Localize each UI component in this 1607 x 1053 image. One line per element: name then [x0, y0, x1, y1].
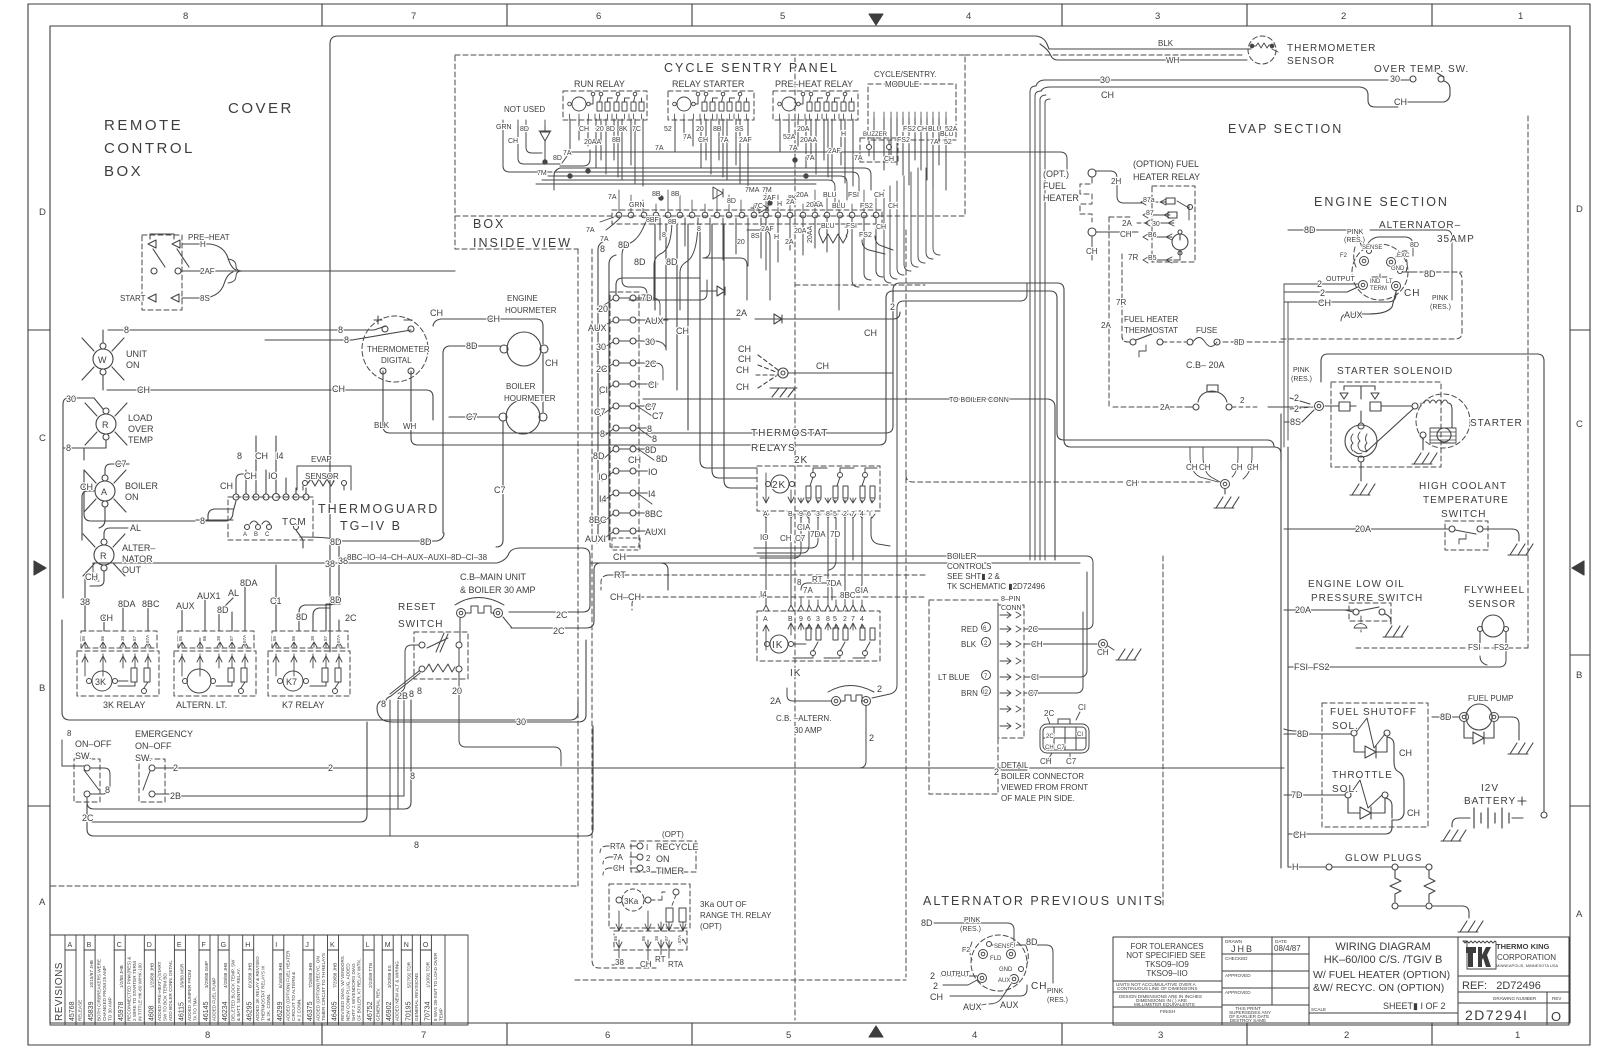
container lamps relays bottom	[62, 620, 578, 720]
wires K7 pins up	[275, 565, 277, 631]
wire BLK from digital via harness	[383, 283, 1281, 460]
3K relay body dashed box	[77, 651, 159, 696]
svg-text:86: 86	[641, 935, 646, 941]
strip left leaders	[594, 299, 613, 543]
wire CH below R2	[90, 571, 104, 586]
svg-text:4608: 4608	[148, 1005, 155, 1021]
svg-text:CH: CH	[1040, 757, 1052, 766]
svg-text:OUTPUT: OUTPUT	[1326, 276, 1356, 283]
alternator 35 terminals	[1367, 249, 1372, 254]
reset switch resistor row	[419, 666, 425, 672]
svg-text:MILLIMETER EQUIVALENTS: MILLIMETER EQUIVALENTS	[1134, 1002, 1195, 1007]
wire H stub	[182, 243, 203, 245]
revision entry J	[313, 935, 315, 1025]
svg-text:IO: IO	[598, 472, 608, 482]
svg-text:ADDED FUEL PUMP: ADDED FUEL PUMP	[212, 978, 217, 1021]
svg-text:2: 2	[328, 763, 333, 773]
svg-text:2: 2	[1240, 396, 1245, 405]
svg-text:CH: CH	[917, 126, 927, 133]
svg-text:8D: 8D	[1304, 225, 1316, 235]
svg-text:20A: 20A	[797, 126, 810, 133]
wire 8D top center drop	[598, 241, 605, 535]
svg-text:30: 30	[596, 342, 606, 352]
svg-text:LT BLUE: LT BLUE	[938, 673, 970, 682]
terminal strip rows	[613, 295, 636, 534]
svg-text:2: 2	[877, 684, 882, 694]
wire 8 on-off run	[87, 700, 411, 809]
svg-text:SCALE: SCALE	[1311, 1007, 1326, 1012]
preheat switch link top	[150, 234, 174, 239]
wire 8D drop2	[609, 255, 616, 540]
wire GRN drop	[503, 126, 552, 172]
boiler connector detail body	[1040, 724, 1089, 753]
title block divider center/logo	[1457, 937, 1459, 1025]
wire 7A run long	[562, 152, 600, 163]
wire 8D exc corner	[1366, 237, 1413, 257]
svg-text:ON: ON	[126, 360, 140, 370]
svg-text:20AA: 20AA	[584, 139, 601, 146]
K7 relay coil	[283, 671, 303, 691]
svg-text:8D: 8D	[296, 612, 308, 622]
svg-text:CH: CH	[640, 960, 652, 969]
dashed CH wire to engine ground	[906, 475, 1210, 482]
svg-text:8D: 8D	[1410, 242, 1419, 249]
svg-text:8D: 8D	[1424, 269, 1436, 279]
svg-text:35AMP: 35AMP	[1437, 234, 1475, 245]
revision entry M	[392, 935, 394, 1025]
svg-text:46405: 46405	[332, 1001, 339, 1021]
wires mid harness joins	[754, 540, 818, 558]
revision entry G	[228, 935, 230, 1025]
svg-text:38: 38	[216, 635, 221, 641]
thermometer digital dashed circle	[362, 316, 428, 382]
svg-text:8BC: 8BC	[645, 509, 663, 519]
ground bolt engine	[1221, 480, 1230, 489]
dashed boundary vertical left	[577, 249, 579, 886]
svg-text:8D: 8D	[727, 198, 736, 205]
wire starter drops	[675, 119, 748, 186]
svg-text:W: W	[98, 355, 107, 365]
svg-text:DELETED BLOCK TEMP. SW: DELETED BLOCK TEMP. SW	[231, 959, 236, 1021]
wire 20A high coolant	[1284, 528, 1448, 530]
svg-text:JHB: JHB	[1231, 944, 1254, 954]
svg-text:DESTROY SAME: DESTROY SAME	[1230, 1018, 1266, 1023]
wire 8D hourmeter	[443, 346, 500, 533]
wire 8 long bottom run	[87, 726, 593, 836]
thermostat relay 2K dashed box	[757, 466, 880, 511]
svg-text:7: 7	[851, 511, 855, 518]
engine hourmeter	[507, 332, 541, 366]
2K below arrows	[763, 514, 875, 518]
svg-text:46752: 46752	[367, 1001, 374, 1021]
svg-text:ENGINE: ENGINE	[507, 294, 538, 303]
svg-text:OF BOILER. K7 RELAY W/TK.: OF BOILER. K7 RELAY W/TK.	[357, 958, 362, 1021]
cb main element	[466, 606, 494, 613]
svg-text:C7: C7	[1028, 689, 1039, 698]
svg-text:TKSO9–IO9: TKSO9–IO9	[1145, 960, 1189, 969]
svg-text:85: 85	[178, 635, 183, 641]
fuel pump ground	[1499, 717, 1519, 740]
svg-text:C: C	[265, 532, 270, 538]
svg-text:7A: 7A	[854, 155, 863, 162]
wire harness 8BC-IO-I4 run	[93, 548, 582, 563]
svg-text:TIMER CIRCUIT TO TH RELAYS: TIMER CIRCUIT TO TH RELAYS	[321, 953, 326, 1021]
low oil contacts	[1353, 609, 1359, 615]
svg-text:HEATER RELAY: HEATER RELAY	[1133, 172, 1200, 182]
svg-text:ADDED JUMPER FROM: ADDED JUMPER FROM	[187, 970, 192, 1021]
svg-text:I2: I2	[983, 690, 989, 696]
svg-text:TO BOILER CONN: TO BOILER CONN	[949, 397, 1009, 404]
dashed boundary right of boiler controls	[1162, 556, 1164, 908]
svg-text:IK: IK	[790, 668, 801, 679]
evap sensor element	[303, 481, 308, 486]
revision entry N	[411, 935, 413, 1025]
svg-text:H: H	[200, 240, 206, 249]
wires module corner east	[884, 248, 940, 283]
drawn column rows	[1222, 953, 1309, 955]
svg-text:TKSO9–IIO: TKSO9–IIO	[1146, 969, 1187, 978]
svg-text:CH: CH	[736, 365, 749, 375]
low oil ground	[1385, 614, 1391, 624]
svg-text:I4: I4	[599, 494, 607, 504]
svg-text:FS2: FS2	[860, 203, 873, 210]
svg-text:(OPT.): (OPT.)	[1043, 169, 1069, 179]
svg-text:87: 87	[132, 635, 137, 641]
wire 8BC harness left	[93, 563, 99, 581]
wire CH tcm	[208, 470, 246, 520]
date column divider	[1271, 937, 1273, 1005]
svg-text:5: 5	[786, 1030, 791, 1041]
svg-text:CH: CH	[579, 126, 589, 133]
svg-text:CH: CH	[1231, 463, 1243, 472]
svg-text:D: D	[147, 942, 152, 949]
wire CH bottom	[1288, 820, 1392, 834]
svg-text:A: A	[68, 942, 73, 949]
svg-text:87A: 87A	[242, 634, 247, 643]
svg-text:FS2: FS2	[859, 232, 872, 239]
wire 8 second to thermometer minus	[265, 330, 411, 340]
zone ticks left	[28, 329, 50, 331]
emergency on-off dashed box	[139, 759, 165, 802]
svg-text:BRN: BRN	[961, 689, 978, 698]
svg-text:I: I	[275, 942, 277, 949]
svg-text:6: 6	[605, 1030, 610, 1041]
svg-text:7A: 7A	[600, 236, 609, 243]
svg-text:CORPORATION: CORPORATION	[1497, 953, 1556, 962]
svg-text:7D: 7D	[1291, 790, 1303, 800]
svg-text:38: 38	[325, 559, 335, 569]
svg-text:B: B	[254, 532, 258, 538]
svg-text:2 WIRE TO STARTER TERM: 2 WIRE TO STARTER TERM	[132, 961, 137, 1021]
svg-text:8: 8	[205, 1030, 210, 1041]
fuel shutoff throttle dashed box	[1322, 703, 1428, 827]
svg-text:8D: 8D	[466, 341, 478, 351]
svg-text:SENSOR: SENSOR	[1468, 599, 1516, 610]
revision entry D	[154, 935, 156, 1025]
wire engine feed vertical 2	[1287, 302, 1289, 440]
svg-text:BLU: BLU	[823, 192, 837, 199]
svg-text:A: A	[243, 532, 247, 538]
svg-text:2AF: 2AF	[828, 148, 841, 155]
svg-text:1/2/88 JHB: 1/2/88 JHB	[119, 965, 124, 988]
engine container rounded	[1321, 354, 1544, 812]
svg-text:AUX: AUX	[1344, 310, 1363, 320]
svg-text:THERMO KING: THERMO KING	[1496, 942, 1549, 951]
wires below terminal row fan	[600, 217, 620, 230]
svg-text:45978: 45978	[118, 1001, 125, 1021]
svg-text:7A: 7A	[720, 137, 729, 144]
svg-text:GRN: GRN	[496, 124, 512, 131]
wire 8 tcm	[196, 474, 246, 520]
svg-text:AUX: AUX	[588, 323, 607, 333]
box inside view dashed corner	[455, 216, 578, 249]
svg-text:& BATT. SENTRY RELAY.: & BATT. SENTRY RELAY.	[236, 968, 241, 1021]
wire harness top container	[330, 36, 1049, 652]
wire preheat drops	[780, 119, 853, 186]
thermometer digital plus minus	[374, 316, 412, 324]
svg-text:8D: 8D	[217, 605, 229, 615]
svg-text:46234: 46234	[222, 1001, 229, 1021]
svg-text:46299: 46299	[277, 1001, 284, 1021]
wires CH fan to ground node	[756, 355, 778, 388]
wire 2A center	[660, 312, 900, 319]
svg-text:WH: WH	[403, 422, 417, 431]
svg-text:38: 38	[120, 635, 125, 641]
svg-text:8: 8	[647, 424, 652, 434]
svg-text:GLOW PLUGS: GLOW PLUGS	[1345, 853, 1422, 864]
svg-text:8: 8	[652, 434, 657, 444]
run relay dashed box	[563, 91, 647, 120]
svg-text:CH: CH	[332, 384, 345, 394]
svg-text:CH: CH	[613, 864, 625, 873]
svg-text:8DA: 8DA	[240, 578, 258, 588]
svg-text:REVISED DIAG. W/ VENDORS: REVISED DIAG. W/ VENDORS	[340, 956, 345, 1021]
svg-text:38: 38	[80, 597, 90, 607]
wire 30 into relay	[1137, 222, 1148, 224]
svg-text:30: 30	[516, 717, 526, 727]
7R dashed vertical	[1122, 254, 1128, 342]
wire 8S stub	[182, 272, 233, 298]
wire 2C on-off run	[87, 722, 367, 822]
svg-text:C.B–MAIN UNIT: C.B–MAIN UNIT	[460, 572, 527, 582]
svg-text:TCM: TCM	[282, 517, 307, 528]
svg-text:B: B	[788, 616, 793, 623]
svg-text:8: 8	[826, 616, 830, 623]
over temp wires	[1395, 80, 1450, 102]
svg-text:I4: I4	[648, 489, 656, 499]
svg-text:CH: CH	[1199, 463, 1211, 472]
2A dashed to breaker	[1113, 406, 1191, 408]
thermometer digital terminals	[382, 326, 388, 332]
solenoid coil	[1345, 425, 1377, 457]
wires tcm top pins up	[256, 452, 286, 494]
wire AUX hook	[1341, 314, 1368, 321]
svg-text:87: 87	[1146, 210, 1154, 217]
svg-text:SOL.: SOL.	[1332, 721, 1359, 732]
wires CH CH engine left	[1190, 447, 1252, 456]
2K pin arrows down	[763, 473, 875, 503]
wire 7A long	[600, 152, 1067, 170]
svg-text:8BF: 8BF	[646, 217, 659, 224]
emergency wires	[155, 768, 186, 794]
svg-text:8: 8	[200, 516, 205, 526]
boiler hourmeter	[506, 400, 540, 434]
wire 2C diagonal from breaker	[503, 617, 512, 628]
svg-text:CH: CH	[628, 455, 641, 465]
wire engine feed vertical	[1283, 284, 1285, 447]
svg-text:1: 1	[1515, 1030, 1520, 1041]
wire 2B long	[178, 795, 404, 797]
svg-text:GRN: GRN	[629, 202, 645, 209]
svg-text:ALTER–: ALTER–	[122, 543, 155, 553]
svg-text:ENGINE LOW OIL: ENGINE LOW OIL	[1308, 579, 1405, 590]
wire AUX diagonal	[989, 984, 1011, 1004]
svg-text:ADDED NEW ALT & WIRING: ADDED NEW ALT & WIRING	[395, 961, 400, 1021]
K7 relay body dashed box	[268, 651, 350, 696]
wire reset to 20	[459, 648, 561, 766]
wire WH from digital via harness	[411, 291, 1274, 447]
svg-text:SW.: SW.	[75, 751, 92, 761]
wire 8D thermoguard to relays	[300, 533, 444, 541]
wire 8 run to thermoguard	[84, 470, 236, 521]
svg-text:CHANGED FROM 25 AMP: CHANGED FROM 25 AMP	[102, 966, 107, 1021]
svg-text:2K: 2K	[772, 480, 786, 491]
svg-text:C7: C7	[594, 407, 606, 417]
svg-text:3K: 3K	[95, 677, 106, 687]
svg-text:RELEASE: RELEASE	[78, 1000, 83, 1021]
wire CH-CH dashed	[632, 597, 927, 610]
svg-text:CH: CH	[1045, 745, 1054, 751]
svg-text:TEMP: TEMP	[128, 435, 153, 445]
svg-text:SENSOR: SENSOR	[305, 472, 339, 481]
svg-text:L: L	[366, 942, 370, 949]
svg-text:2: 2	[930, 971, 935, 981]
svg-text:CIA: CIA	[797, 523, 811, 532]
svg-text:A: A	[1576, 909, 1583, 920]
fuse	[1187, 339, 1193, 345]
wire 2 long run	[186, 767, 1284, 769]
svg-text:FLD: FLD	[990, 956, 1002, 962]
svg-text:2A: 2A	[785, 239, 794, 246]
starter ground	[1422, 438, 1424, 450]
3Ka relay circle	[622, 889, 644, 911]
svg-text:30: 30	[66, 394, 76, 404]
wire 8 down right	[703, 230, 770, 300]
relay contact blade	[1177, 201, 1189, 220]
svg-text:8: 8	[826, 511, 830, 518]
wire drops bundle to terminal row	[619, 190, 876, 212]
svg-text:D: D	[39, 207, 46, 218]
svg-text:# 2 CONN.: # 2 CONN.	[296, 999, 301, 1021]
svg-text:SHT# 2 W/VENDORS DIAG: SHT# 2 W/VENDORS DIAG	[351, 963, 356, 1021]
svg-text:CH: CH	[864, 328, 877, 338]
logo row line	[1458, 975, 1569, 977]
svg-text:MINNEAPOLIS, MINNESOTA USA: MINNEAPOLIS, MINNESOTA USA	[1496, 963, 1558, 968]
wire C7 drop	[496, 421, 503, 547]
wire CH left of A	[82, 491, 95, 540]
svg-text:2A: 2A	[1160, 403, 1170, 412]
svg-text:EVAP: EVAP	[311, 455, 332, 464]
drawing number header line	[1458, 1002, 1569, 1004]
svg-text:8: 8	[344, 335, 349, 345]
wire 2C row	[618, 556, 1093, 629]
wire 8 to reset	[385, 673, 420, 704]
center arrow bottom	[869, 1026, 883, 1037]
svg-text:20: 20	[452, 686, 462, 696]
solenoid internals	[1340, 393, 1379, 399]
svg-text:6: 6	[807, 511, 811, 518]
svg-text:46375: 46375	[307, 1001, 314, 1021]
high coolant contacts	[1449, 526, 1455, 532]
svg-text:CH: CH	[736, 382, 749, 392]
svg-text:O: O	[423, 942, 429, 949]
wire 7D terminal top	[616, 278, 700, 298]
svg-text:BOILER: BOILER	[506, 382, 536, 391]
svg-text:2: 2	[933, 981, 938, 991]
svg-text:EMERGENCY: EMERGENCY	[135, 729, 193, 739]
svg-text:CH: CH	[137, 385, 150, 395]
svg-text:K: K	[330, 942, 335, 949]
svg-text:B: B	[1576, 670, 1582, 681]
svg-text:8B: 8B	[671, 191, 680, 198]
svg-text:THERMOSTAT: THERMOSTAT	[751, 428, 828, 439]
svg-text:7/26/88 JHB: 7/26/88 JHB	[308, 963, 313, 988]
svg-text:3/20/89 ES: 3/20/89 ES	[387, 965, 392, 988]
svg-text:IO: IO	[648, 467, 658, 477]
svg-text:CH: CH	[1247, 463, 1259, 472]
svg-text:C7: C7	[1057, 745, 1065, 751]
svg-text:8D: 8D	[1440, 712, 1452, 722]
svg-text:8: 8	[338, 325, 343, 335]
svg-text:C7: C7	[652, 411, 664, 421]
svg-text:7DA: 7DA	[826, 579, 842, 588]
svg-text:BLU: BLU	[832, 203, 846, 210]
revision entry F	[209, 935, 211, 1025]
svg-text:CI: CI	[1077, 732, 1083, 738]
svg-text:TIMER: TIMER	[656, 866, 684, 876]
svg-text:I4: I4	[276, 451, 284, 461]
svg-text:20A: 20A	[794, 228, 807, 235]
svg-text:2A: 2A	[770, 696, 781, 706]
svg-text:8 WAS 2B-SWT TO LOAD OVER: 8 WAS 2B-SWT TO LOAD OVER	[433, 952, 438, 1021]
svg-text:CH: CH	[876, 224, 886, 231]
center arrow right	[1572, 561, 1584, 575]
altern internals	[179, 654, 248, 676]
svg-text:VIEWED FROM FRONT: VIEWED FROM FRONT	[1001, 783, 1088, 792]
svg-text:AUXI: AUXI	[585, 534, 606, 544]
low oil wire 20A	[1284, 609, 1353, 611]
svg-text:2: 2	[1344, 1030, 1349, 1041]
svg-text:W/ FUEL HEATER (OPTION): W/ FUEL HEATER (OPTION)	[1313, 969, 1450, 981]
svg-text:7C: 7C	[754, 203, 763, 210]
battery plus minus	[1464, 797, 1526, 805]
3K relay coil	[92, 671, 112, 691]
svg-text:NATOR: NATOR	[122, 554, 153, 564]
svg-text:R: R	[102, 420, 109, 430]
detail underline	[1001, 769, 1027, 771]
wires to IK pins	[763, 598, 865, 611]
reset blade to 8	[390, 671, 419, 694]
wire CH throttle join	[1385, 762, 1404, 820]
preheat switch dashed box	[142, 235, 182, 310]
svg-text:C7: C7	[494, 485, 506, 495]
svg-text:WIRING DIAGRAM: WIRING DIAGRAM	[1335, 941, 1430, 953]
svg-text:NOT USED: NOT USED	[504, 105, 545, 114]
IK bottom contacts	[811, 651, 816, 656]
wire CH heater down	[1091, 236, 1093, 260]
circled pin numbers	[982, 623, 991, 632]
fuel pump	[1466, 704, 1492, 730]
